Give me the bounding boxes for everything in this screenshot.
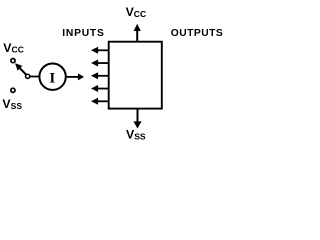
svg-text:VSS: VSS: [126, 128, 146, 142]
switch arm with arrowhead: [15, 63, 26, 75]
device under test box: [109, 42, 162, 109]
input arrow 4: [91, 85, 109, 92]
meter output arrow: [66, 73, 84, 80]
switch terminal VSS: [11, 88, 15, 92]
VSS pin arrow (bottom): [133, 109, 141, 129]
svg-text:VCC: VCC: [126, 5, 147, 19]
wire pole to current meter: [30, 76, 40, 78]
switch pole: [26, 74, 30, 78]
input arrow 5: [91, 98, 109, 105]
svg-text:VSS: VSS: [2, 97, 22, 111]
svg-text:I: I: [49, 70, 55, 86]
input arrow 2: [91, 60, 109, 67]
svg-text:OUTPUTS: OUTPUTS: [171, 28, 223, 39]
current meter I: [39, 63, 65, 89]
svg-text:VCC: VCC: [3, 41, 24, 55]
svg-text:INPUTS: INPUTS: [62, 28, 104, 39]
switch terminal VCC: [11, 59, 15, 63]
VCC pin arrow (top): [134, 24, 141, 42]
input arrow 3: [91, 72, 109, 79]
input arrow 1: [91, 47, 109, 54]
